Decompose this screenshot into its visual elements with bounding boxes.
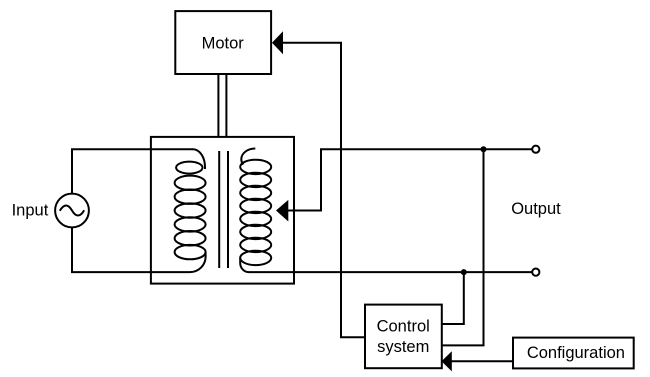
svg-text:Configuration: Configuration (527, 344, 625, 362)
svg-text:Motor: Motor (202, 35, 245, 53)
svg-text:Control: Control (377, 317, 430, 335)
svg-text:system: system (377, 338, 429, 356)
svg-text:Input: Input (12, 202, 49, 220)
svg-text:Output: Output (511, 200, 561, 218)
